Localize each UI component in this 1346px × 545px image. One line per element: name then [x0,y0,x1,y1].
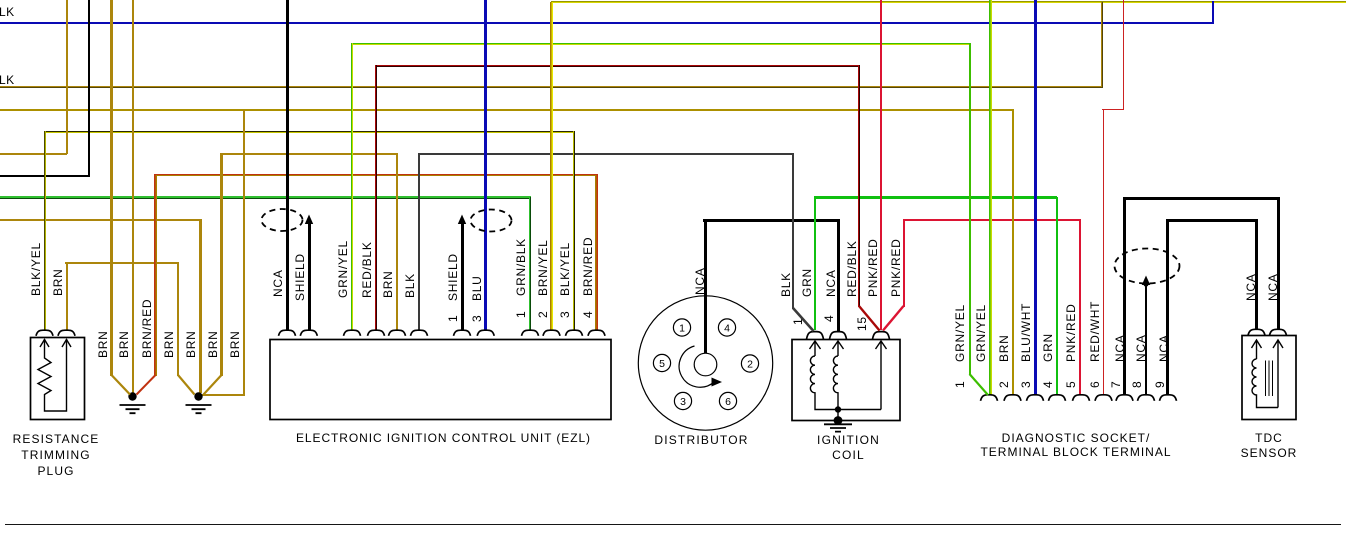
pin number 4 coil [823,315,835,322]
wire NCA vertical diagnostic pin 9 [1166,219,1169,395]
diagnostic pin connector arc at x=1168 [1160,395,1177,401]
distributor rotation arc [679,346,714,387]
svg-text:3: 3 [680,396,686,408]
wire NCA horizontal inner loop diag pin 9 to TDC [1166,219,1258,222]
wire NCA vertical to coil pin 4 [837,219,840,331]
label BRN ground1 wire 1 [97,330,109,358]
label BLU/WHT diagnostic socket [1020,303,1032,362]
EZL pin connector arc at x=530 [522,330,539,336]
coil primary winding L1 [810,356,881,410]
shield symbol ellipse diagnostic [1115,249,1180,284]
pin number 2 EZL BRN/YEL [537,311,549,318]
label BRN EZL [382,270,394,298]
diagnostic pin connector arc at x=1103.5 [1095,395,1112,401]
wire BLK vertical to coil pin 1 [792,154,794,309]
wire BRN/RED vertical to ground 1 [154,175,156,376]
wire PNK/RED vertical to coil pin 15 [880,0,882,330]
label BRN ground2 wire 1 [163,330,175,358]
ignition coil box [792,340,900,421]
ground symbol 1 [128,392,136,400]
coil ground [834,416,843,425]
pin number 1 EZL SHIELD [447,315,459,322]
distributor terminal circle 3 [674,392,691,409]
diagnostic pin connector arc at x=1012.5 [1004,395,1021,401]
diagnostic pin connector arc at x=1035 [1027,395,1044,401]
label BRN/YEL EZL pin 2 [537,239,549,296]
plug pin 2 arrow [62,340,71,348]
diagnostic pin connector arc at x=1081 [1073,395,1090,401]
wire BRN horizontal bridge to EZL pin BRN [220,153,398,155]
wire GRN/BLK horizontal [0,196,531,199]
coil junction node [835,406,841,412]
EZL pin connector arc at x=397 [389,330,406,336]
label RED/WHT diagnostic socket [1089,301,1101,362]
svg-text:2: 2 [747,359,753,371]
EZL pin connector arc at x=376 [368,330,385,336]
wire NCA vertical TDC left pin [1255,219,1258,330]
label BRN ground1 wire 2 [118,330,130,358]
label SHIELD EZL left [294,253,306,301]
diagnostic pin connector arc at x=1057 [1049,395,1066,401]
label NCA diagnostic socket [1135,334,1147,362]
label NCA coil [825,269,837,297]
wire BRN horizontal to diagnostic pin 2 [0,109,1014,111]
wire BLK/YEL horizontal [44,131,575,133]
wire BLK/YEL vertical to plug pin 1 [44,131,46,330]
EZL pin connector arc at x=352 [344,330,361,336]
TDC pin connector arc right [1270,329,1287,335]
label BLK EZL [404,273,416,298]
label BLK clipped mid left [0,73,15,87]
wire BRN vertical to ground 2a [177,263,179,376]
pin number 6 diagnostic socket [1089,381,1101,388]
distributor terminal circle 5 [653,354,670,371]
label BRN/RED ground1 wire 3 [141,299,153,358]
plug pin 1 connector arc [36,330,53,336]
label NCA diagnostic socket [1158,334,1170,362]
shield arrow diagnostic [1142,276,1150,286]
wire RED/BLK vertical to coil pin 15 [858,65,860,307]
wire NCA vertical diagnostic pin 7 [1123,197,1126,395]
wire BRN vertical to ground 2c [220,154,222,376]
wire GRN/YEL diagonal into diagnostic pin 1 [970,374,989,395]
label NCA TDC right [1267,273,1279,301]
wire BRN/BLK horizontal [0,86,1103,88]
label GRN/YEL EZL [337,240,349,298]
label RED/BLK coil [846,240,858,297]
component name DISTRIBUTOR [552,433,852,449]
label NCA TDC left [1245,273,1257,301]
wire BRN horizontal left stub [0,153,67,155]
wire BRN/YEL bus horizontal top [551,1,1346,3]
EZL pin connector arc at x=462 [454,330,471,336]
component name ELECTRONIC IGNITION CONTROL UNIT (EZL) [294,431,594,447]
TDC pin arrow right [1273,340,1283,408]
component name RESISTANCE TRIMMING PLUG [0,431,206,479]
label GRN diagnostic socket [1042,333,1054,362]
wire BLK horizontal left stub [0,175,90,177]
wire BRN vertical to diagnostic pin 2 [1012,110,1014,395]
component name IGNITION COIL [699,433,999,464]
TDC sensor box [1242,336,1296,420]
pin number 4 diagnostic socket [1042,381,1054,388]
distributor rotor circle [694,353,717,376]
svg-text:5: 5 [659,358,665,370]
label SHIELD EZL pin 1 [447,253,459,301]
label PNK/RED coil a [867,238,879,297]
wire NCA horizontal distributor to coil pin 4 [703,219,840,222]
label RED/BLK EZL [361,241,373,298]
EZL pin connector arc at x=551.5 [543,330,560,336]
wire SHIELD vertical EZL pin 1 [461,221,464,330]
wire PNK/RED vertical to diagnostic pin 5 [1079,220,1081,395]
wire BRN diagonal 2 into ground 2 [204,375,222,395]
pin number 3 EZL BLK/YEL [559,311,571,318]
wire BLU/BLK vertical stub [1212,1,1214,24]
wire BRN/RED diagonal into ground 1 [137,375,156,395]
TDC sensor winding [1252,359,1278,408]
wire NCA shield vertical diagnostic pin 8 [1145,283,1148,395]
pin number 3 EZL BLU [471,315,483,322]
wire RED/BLK vertical EZL [375,65,377,330]
wire GRN/BLK vertical EZL pin 1 [529,197,531,330]
wire NCA horizontal outer loop diag pin 7 to TDC [1123,197,1280,200]
wire GRN vertical to coil pin 1 [814,197,816,330]
pin number 4 EZL BRN/RED [582,311,594,318]
TDC pin arrow left [1252,340,1262,359]
wire BRN vertical top left [66,0,68,154]
wire BRN diagonal into ground 2 [178,375,195,395]
wire BLK vertical top left [88,0,90,176]
label NCA diagnostic socket [1114,334,1126,362]
distributor body circle [638,296,772,430]
component name DIAGNOSTIC SOCKET / TERMINAL BLOCK TERMINAL [926,431,1226,460]
wire BRN/RED vertical EZL pin 4 [595,175,597,330]
wire GRN/YEL horizontal [351,43,970,45]
label BLK/YEL plug pin 1 [30,242,42,296]
coil pin connector arc at x=815 [807,332,824,340]
wire PNK/RED diagonal into coil pin 15 [883,306,904,331]
label BRN plug pin 2 [52,268,64,296]
EZL control unit box [270,340,611,420]
shield symbol ellipse EZL right [471,210,512,232]
wire BRN vertical to ground 1a [110,0,112,376]
distributor terminal circle 1 [673,319,690,336]
wire GRN/YEL vertical EZL [351,43,353,330]
pin number 1 diagnostic socket [954,381,966,388]
label BLK clipped top left [0,5,15,19]
wire NCA vertical distributor [704,219,707,353]
label BRN ground2 wire 2 [185,330,197,358]
wire BLK diagonal into coil pin 1 [793,308,814,331]
pin number 5 diagnostic socket [1065,381,1077,388]
distributor terminal circle 2 [741,355,758,372]
wire BRN vertical to ground 1b [132,0,134,393]
wire BRN/BLK vertical right [1101,2,1103,87]
label NCA EZL [272,269,284,297]
distributor terminal circle 4 [718,319,735,336]
wire RED/BLK horizontal [375,65,860,67]
wire BRN horizontal to ground group 2 [0,219,202,221]
TDC sensor core lines [1266,361,1273,397]
pin number 3 diagnostic socket [1020,381,1032,388]
wire BRN bottom jog to ground 2 [202,394,245,396]
plug pin 1 arrow [40,340,49,348]
diagnostic pin connector arc at x=1124.5 [1116,395,1133,401]
wire BLK horizontal EZL to ignition coil [418,153,794,155]
pin number 1 EZL GRN/BLK [515,311,527,318]
wire BRN vertical to ground 2b [199,219,201,393]
svg-text:6: 6 [725,396,731,408]
coil pin connector arc at x=838 [830,332,847,340]
wire BLK/YEL vertical EZL pin 3 [573,131,575,330]
svg-text:4: 4 [724,323,730,335]
TDC pin connector arc left [1248,329,1265,335]
label GRN coil [801,268,813,297]
wire GRN horizontal coil to diagnostic pin 4 [814,196,1057,199]
pin number 15 coil [856,316,868,331]
wire PNK/RED vertical from coil pin 15 [903,220,905,307]
pin number 8 diagnostic socket [1131,381,1143,388]
EZL pin connector arc at x=574 [566,330,583,336]
wire NCA vertical EZL [286,0,289,330]
coil pin connector arc at x=881 [873,332,890,340]
plug pin 2 connector arc [58,330,75,336]
label GRN/BLK EZL pin 1 [515,238,527,296]
label BLK coil [780,272,792,297]
coil pin 15 arrow [876,341,887,410]
resistance trimming plug box [31,338,85,420]
wire RED/WHT vertical to diagnostic pin 6 [1103,110,1104,395]
wire BRN/RED horizontal [154,174,598,176]
svg-text:1: 1 [679,323,685,335]
wire BRN vertical plug pin 2 [66,262,68,330]
wire BLU/BLK horizontal [0,22,1214,24]
wire BRN vertical EZL pin [396,154,398,330]
pin number 9 diagnostic socket [1154,381,1166,388]
label BRN ground2 wire 4 [229,330,241,358]
EZL pin connector arc at x=596.5 [588,330,605,336]
wire BLK vertical EZL pin [418,154,420,330]
shield symbol ellipse EZL left [262,209,303,231]
label GRN/YEL diagnostic socket [975,304,987,362]
component name TDC SENSOR [1119,431,1346,461]
coil pin 1 arrow [810,341,821,356]
EZL pin connector arc at x=485.7 [477,330,494,336]
pin number 2 diagnostic socket [998,381,1010,388]
wire BLU/WHT vertical to diagnostic pin 3 [1034,0,1037,395]
wire PNK/RED horizontal to diagnostic pin 5 [903,219,1082,221]
diagnostic pin connector arc at x=989 [981,395,998,401]
distributor terminal circle 6 [719,392,736,409]
wire BRN/YEL vertical EZL pin 2 [550,2,552,330]
label GRN/YEL diagnostic socket [954,304,966,362]
wire NCA vertical TDC right pin [1277,197,1280,330]
wire RED/BLK diagonal into coil pin 15 [859,306,880,331]
label BRN diagnostic socket [998,334,1010,362]
EZL pin connector arc at x=308.8 [300,330,317,336]
pin number 7 diagnostic socket [1110,381,1122,388]
EZL pin connector arc at x=419 [411,330,428,336]
EZL pin connector arc at x=287 [279,330,296,336]
wire GRN/YEL vertical to diagnostic pin 1 [969,43,971,375]
label BRN/RED EZL pin 4 [582,237,594,296]
wire GRN vertical to diagnostic pin 4 [1056,197,1058,395]
wire BRN vertical to ground 2d [243,110,245,396]
wire BRN diagonal into ground 1 [112,375,131,395]
coil pin 4 arrow [833,341,844,356]
shield arrow EZL right [458,215,466,225]
wire BLU vertical EZL pin 3 [484,0,487,330]
ground symbol 2 [194,392,202,400]
wire RED/WHT jog horizontal [1102,109,1124,110]
label BRN ground2 wire 3 [207,330,219,358]
label BLK/YEL EZL pin 3 [559,242,571,296]
resistor R1 zigzag [38,339,67,411]
label PNK/RED diagnostic socket [1065,303,1077,362]
wire RED/WHT vertical top [1123,0,1124,109]
shield arrow EZL left [305,215,313,225]
wire GRN/YEL vertical 2 to diagnostic pin 1 [989,0,992,395]
label BLU EZL pin 3 [471,275,483,301]
pin number 1 coil [792,318,804,325]
bottom rule [5,524,1341,526]
label PNK/RED coil b [890,238,902,297]
wire SHIELD vertical EZL left [308,221,311,330]
coil secondary winding L2 [833,356,838,421]
wire BRN horizontal plug to ground group 2 [65,262,179,264]
label NCA distributor [694,267,706,295]
diagnostic pin connector arc at x=1146 [1138,395,1155,401]
